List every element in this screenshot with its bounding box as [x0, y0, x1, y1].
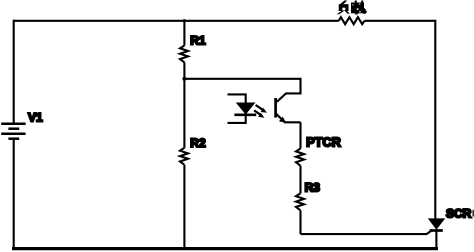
wire left rail lower: [13, 139, 15, 249]
wire branch from R1 junction to optocoupler collector: [184, 79, 300, 102]
wire top rail left segment: [13, 20, 339, 22]
svg-text:PTCR: PTCR: [306, 136, 341, 150]
SCR anode triangle: [429, 219, 444, 229]
wire right rail upper: [434, 20, 436, 220]
wire between PTCR and R3: [299, 166, 301, 194]
svg-text:R1: R1: [190, 34, 206, 48]
svg-text:V1: V1: [28, 110, 43, 124]
resistor PTCR zigzag: [296, 149, 304, 166]
resistor R3 zigzag: [296, 193, 304, 210]
optocoupler U1 phototransistor emitter with arrow: [276, 114, 300, 122]
wire top rail right segment: [364, 20, 435, 22]
optocoupler U1 LED triangle: [237, 103, 255, 114]
optocoupler U1 LED cathode stub: [228, 115, 246, 123]
SCR cathode bar: [430, 229, 443, 232]
optocoupler U1 emitter arrowhead: [279, 117, 286, 123]
resistor R2 zigzag: [180, 148, 188, 165]
label 负载 (load) drawn glyphs: [337, 1, 367, 15]
resistor 负载 (load) zigzag: [339, 17, 365, 24]
wire middle vertical bottom lead: [183, 165, 185, 249]
optocoupler U1 LED cathode bar: [234, 114, 256, 117]
wire left rail upper: [13, 20, 15, 124]
optocoupler U1 light arrow 1: [256, 105, 267, 113]
svg-text:SCR: SCR: [446, 206, 472, 220]
wire emitter to PTCR: [299, 122, 301, 148]
wire middle vertical top lead: [183, 20, 185, 46]
wire gate run to SCR: [301, 231, 432, 235]
wire bottom rail: [12, 247, 438, 250]
wire R3 bottom lead: [299, 210, 301, 234]
optocoupler U1 LED anode stub: [228, 94, 246, 103]
battery V1: [1, 124, 25, 139]
optocoupler U1 light arrow 2: [254, 110, 264, 117]
resistor R1 zigzag: [180, 46, 188, 63]
wire between R1 and R2: [183, 62, 185, 147]
node junction below R1: [182, 77, 186, 81]
svg-text:R3: R3: [305, 180, 321, 194]
node top junction: [183, 19, 186, 22]
svg-text:R2: R2: [190, 136, 206, 150]
optocoupler U1 phototransistor base bar: [274, 98, 277, 118]
wire right rail lower: [435, 231, 437, 249]
